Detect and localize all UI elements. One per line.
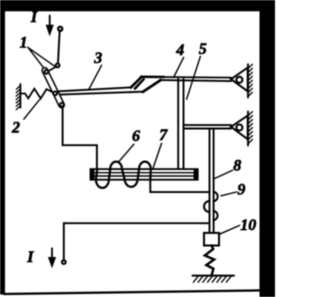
svg-text:8: 8	[233, 158, 241, 175]
svg-text:5: 5	[199, 41, 207, 58]
svg-text:4: 4	[175, 42, 184, 59]
svg-text:3: 3	[93, 50, 102, 67]
svg-text:1: 1	[20, 35, 28, 52]
svg-text:10: 10	[240, 217, 256, 234]
svg-text:I: I	[30, 9, 38, 26]
svg-text:7: 7	[159, 127, 168, 144]
svg-text:9: 9	[237, 181, 245, 198]
svg-text:2: 2	[11, 119, 20, 136]
svg-text:I: I	[26, 249, 34, 266]
svg-text:6: 6	[132, 128, 140, 145]
